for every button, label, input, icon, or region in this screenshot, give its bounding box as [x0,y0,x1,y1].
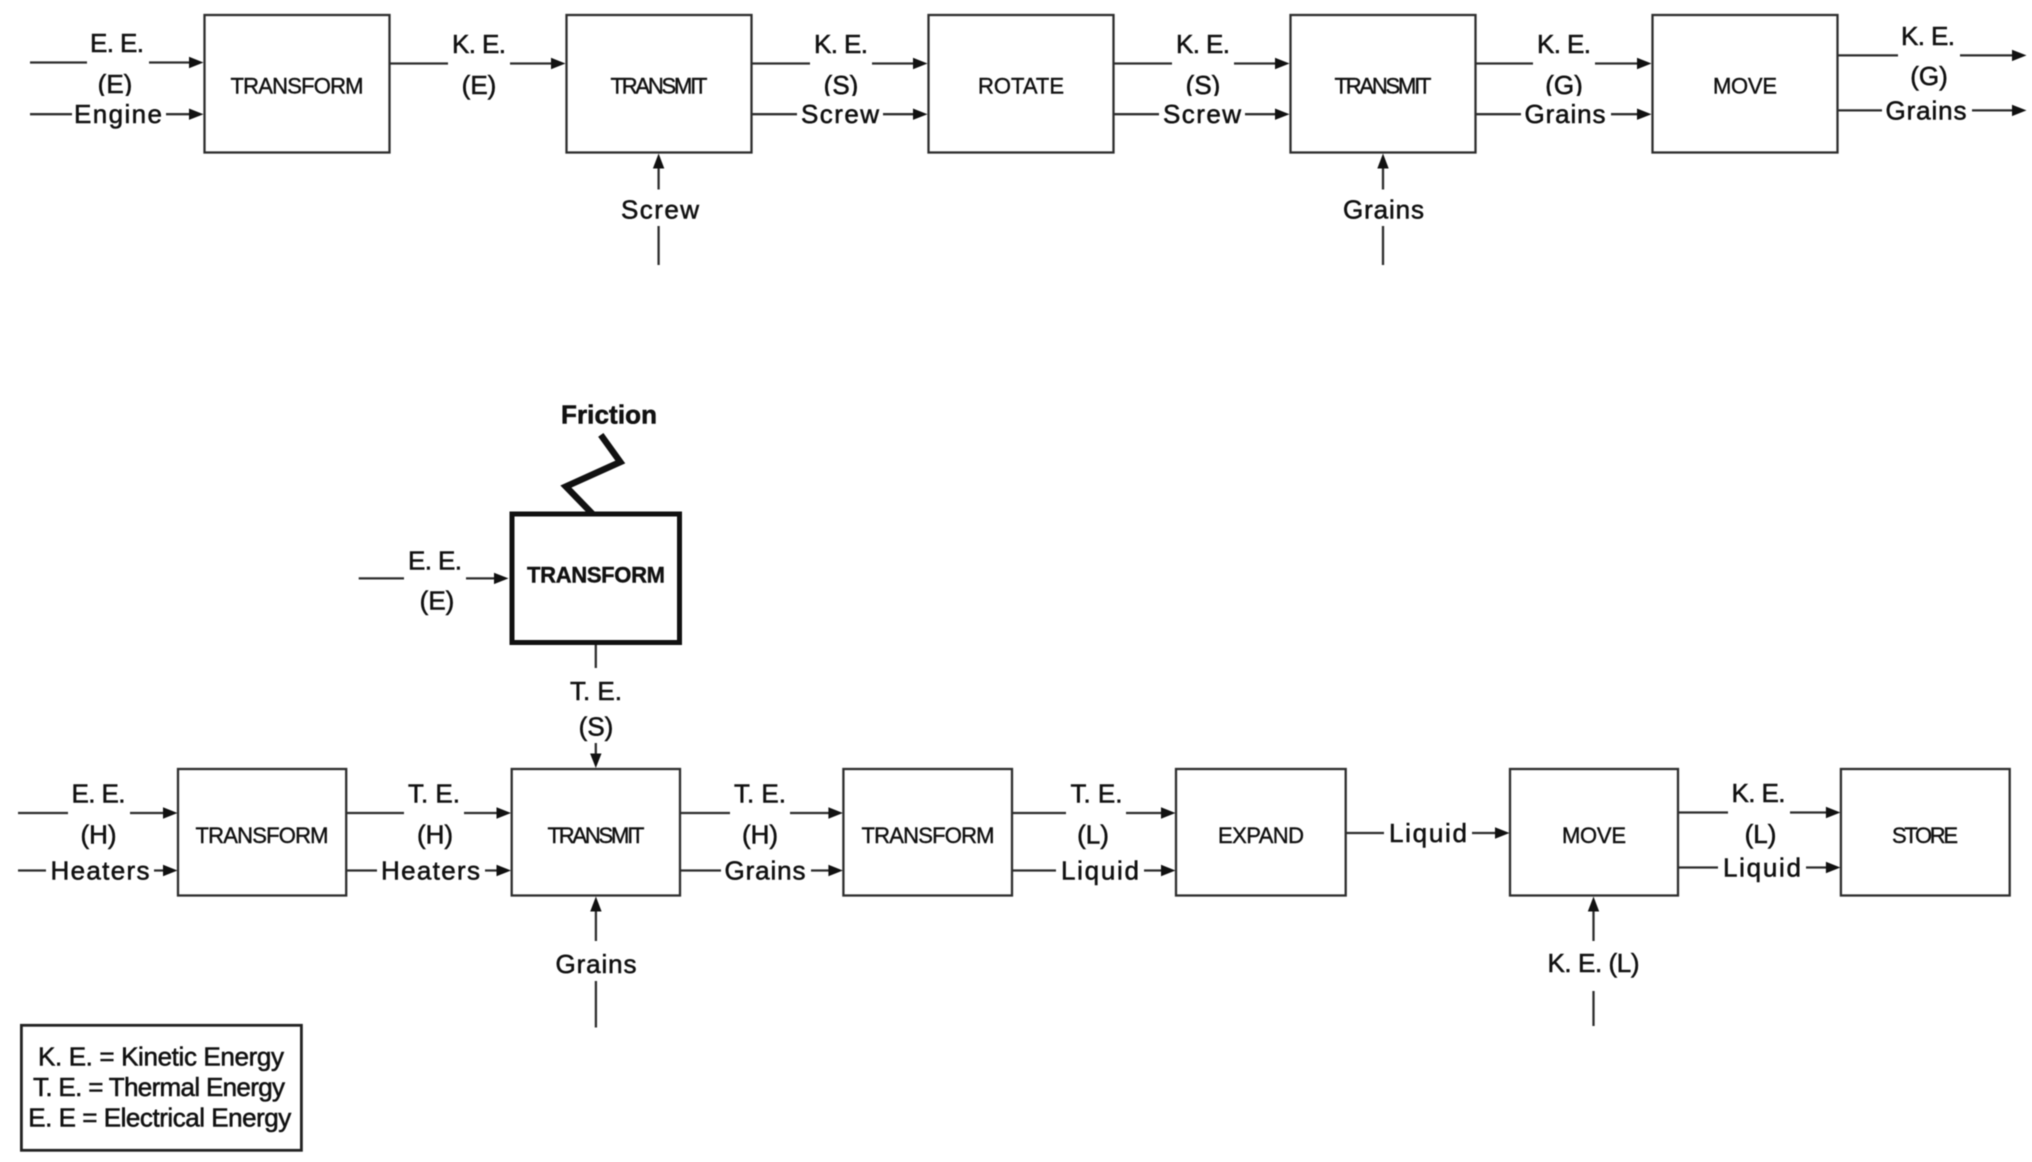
svg-text:TRANSFORM: TRANSFORM [231,74,364,99]
box MOVE bottom row [1510,769,1678,896]
svg-text:T. E.: T. E. [1071,779,1123,809]
wire T.E.(L) bottom TRANSFORM-3 to EXPAND [1012,778,1176,850]
svg-text:EXPAND: EXPAND [1218,823,1304,848]
svg-text:T. E.: T. E. [734,779,786,809]
svg-text:Engine: Engine [74,99,162,129]
svg-text:K. E.: K. E. [452,29,506,59]
svg-text:TRANSMIT: TRANSMIT [611,74,708,99]
svg-text:Grains: Grains [1343,195,1424,225]
wire input Engine into TRANSFORM-1 [30,96,204,132]
svg-text:(L): (L) [1745,819,1777,849]
svg-text:K. E.: K. E. [1176,29,1230,59]
svg-text:(E): (E) [420,586,455,616]
wire Screw ROTATE to TRANSMIT-4 [1114,96,1290,132]
svg-text:(H): (H) [417,820,453,850]
svg-text:TRANSFORM: TRANSFORM [527,563,665,588]
wire K.E.(S) TRANSMIT-2 to ROTATE [752,29,928,100]
legend box [21,1025,301,1150]
svg-text:K. E.: K. E. [1732,778,1786,808]
svg-text:TRANSMIT: TRANSMIT [548,823,645,848]
wire K.E.(S) ROTATE to TRANSMIT-4 [1114,29,1290,100]
svg-text:(G): (G) [1545,70,1583,100]
box TRANSFORM-3 bottom row [843,769,1012,896]
svg-text:K. E.: K. E. [1537,29,1591,59]
wire Grains feed up into bottom TRANSMIT [556,897,637,1028]
wire Grains TRANSMIT to bottom TRANSFORM-3 [680,852,843,888]
wire K.E.(G) TRANSMIT-4 to MOVE [1476,29,1652,100]
svg-text:Liquid: Liquid [1723,853,1801,883]
svg-text:(E): (E) [98,69,133,99]
box TRANSMIT-2 top row [567,15,752,153]
wire input E.E.(E) into TRANSFORM-1 [30,28,204,99]
wire input E.E.(E) into middle TRANSFORM [359,544,509,616]
svg-text:TRANSFORM: TRANSFORM [862,823,995,848]
svg-text:Grains: Grains [556,949,637,979]
zigzag friction symbol [566,435,620,516]
svg-text:E. E.: E. E. [90,28,144,58]
wire K.E.(L) feed up into bottom MOVE [1548,897,1640,1027]
svg-text:TRANSFORM: TRANSFORM [196,823,329,848]
svg-text:T. E.: T. E. [408,779,460,809]
svg-text:K. E.: K. E. [814,29,868,59]
box TRANSMIT bottom row [512,769,680,896]
box EXPAND bottom row [1176,769,1346,896]
wire input E.E.(H) into bottom TRANSFORM-1 [18,778,178,850]
svg-text:STORE: STORE [1892,823,1958,848]
svg-text:(E): (E) [462,70,497,100]
svg-text:K. E.: K. E. [1901,21,1955,51]
svg-text:(H): (H) [80,820,116,850]
svg-text:(S): (S) [824,70,859,100]
svg-text:TRANSMIT: TRANSMIT [1335,74,1432,99]
wire Liquid bottom MOVE to STORE [1678,849,1840,885]
svg-text:(G): (G) [1910,61,1948,91]
svg-text:Heaters: Heaters [51,856,150,886]
svg-text:MOVE: MOVE [1713,74,1777,99]
box TRANSFORM middle (bold) [512,514,680,643]
svg-text:K. E. (L): K. E. (L) [1548,948,1640,978]
wire T.E.(S) middle TRANSFORM down into TRANSMIT bottom [570,645,622,768]
wire Heaters bottom TRANSFORM-1 to TRANSMIT [346,852,511,888]
box ROTATE top row [929,15,1114,153]
svg-text:Friction: Friction [561,400,657,430]
svg-text:(S): (S) [1186,70,1221,100]
svg-text:(L): (L) [1077,820,1109,850]
svg-text:Screw: Screw [801,99,879,129]
box MOVE top row [1653,15,1838,153]
svg-text:Screw: Screw [1163,99,1241,129]
svg-text:Grains: Grains [1525,99,1606,129]
svg-text:(S): (S) [579,712,614,742]
wire K.E.(E) TRANSFORM-1 to TRANSMIT-2 [390,29,566,100]
svg-text:Grains: Grains [725,856,806,886]
svg-text:MOVE: MOVE [1562,823,1626,848]
svg-text:Grains: Grains [1886,95,1967,125]
svg-text:E. E.: E. E. [408,546,462,576]
svg-text:E. E = Electrical Energy: E. E = Electrical Energy [28,1103,291,1133]
wire K.E.(L) bottom MOVE to STORE [1678,777,1840,849]
svg-text:T. E. = Thermal Energy: T. E. = Thermal Energy [33,1072,285,1102]
box TRANSMIT-4 top row [1291,15,1476,153]
box STORE bottom row [1841,769,2010,896]
wire Screw feed up into TRANSMIT-2 [621,154,699,266]
wire Screw TRANSMIT-2 to ROTATE [752,96,928,132]
svg-text:Screw: Screw [621,195,699,225]
svg-text:E. E.: E. E. [72,779,126,809]
wire Liquid EXPAND to bottom MOVE [1346,815,1510,851]
wire input Heaters into bottom TRANSFORM-1 [18,852,178,888]
svg-text:Liquid: Liquid [1389,818,1467,848]
svg-text:(H): (H) [742,820,778,850]
box TRANSFORM-1 bottom row [178,769,346,896]
wire Grains feed up into TRANSMIT-4 [1343,154,1424,266]
wire T.E.(H) TRANSMIT to bottom TRANSFORM-3 [680,778,843,850]
svg-text:Heaters: Heaters [381,856,480,886]
svg-text:T. E.: T. E. [570,676,622,706]
svg-text:ROTATE: ROTATE [978,74,1064,99]
wire T.E.(H) bottom TRANSFORM-1 to TRANSMIT [346,778,511,850]
wire Liquid bottom TRANSFORM-3 to EXPAND [1012,852,1176,888]
wire Grains TRANSMIT-4 to MOVE [1476,96,1652,132]
wire output K.E.(G) from MOVE [1838,21,2027,91]
svg-text:Liquid: Liquid [1061,856,1139,886]
svg-text:K. E. = Kinetic Energy: K. E. = Kinetic Energy [38,1042,284,1072]
box TRANSFORM-1 top row [205,15,390,153]
wire output Grains from MOVE [1838,92,2027,128]
